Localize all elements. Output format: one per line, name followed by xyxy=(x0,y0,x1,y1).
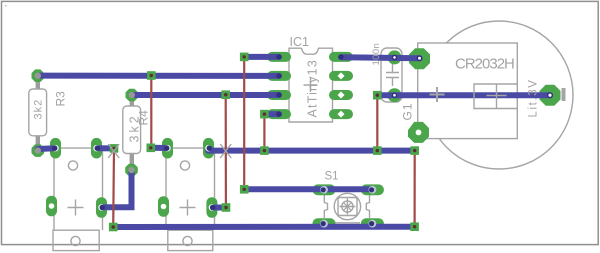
svg-text:3k2: 3k2 xyxy=(128,113,142,142)
J2.ML hole xyxy=(161,204,167,210)
IC1.8 hole xyxy=(338,54,343,59)
IC1.1 hole xyxy=(276,54,281,59)
wire C1.2 to G1 right pad xyxy=(377,92,550,98)
svg-text:AtTiny13: AtTiny13 xyxy=(306,59,320,117)
switch S1 body outline xyxy=(324,189,369,223)
capacitor C1 plates symbol xyxy=(386,64,399,86)
jack J1 outline xyxy=(53,148,103,250)
R3.2 hole xyxy=(35,147,41,153)
J1 pad top-left xyxy=(50,138,61,159)
S1 pad top-left xyxy=(313,184,336,195)
wire top: via at R3 trace down to via at J2.TL stub xyxy=(150,76,152,148)
battery holder plus mark xyxy=(430,87,445,102)
via C bottom hole xyxy=(224,206,227,209)
via F bottom hole xyxy=(376,149,379,152)
svg-text:IC1: IC1 xyxy=(290,35,310,49)
battery holder minus mark xyxy=(562,88,566,101)
svg-text:G1: G1 xyxy=(401,102,415,120)
via G bottom hole xyxy=(413,225,416,228)
IC1.5 hole diamond xyxy=(338,111,345,118)
via A (R3 trace / J2.TL) top xyxy=(147,71,156,80)
wire IC1.8 to C1.1 to G1 plus pad xyxy=(341,57,420,58)
pad G1 bottom-left octagon xyxy=(408,122,429,143)
via E bottom hole xyxy=(263,149,266,152)
via A bottom hole xyxy=(149,146,152,149)
C1.1 hole xyxy=(392,55,398,61)
IC1 pad 2 xyxy=(267,71,291,81)
J1 pad mid-right xyxy=(96,197,107,218)
IC1 pad 8 xyxy=(329,52,353,62)
via D (IC1.1 / S1) top xyxy=(240,53,249,62)
IC1 body outline xyxy=(289,48,333,122)
wire top: via IC1.4 down to via long mid trace xyxy=(263,114,265,151)
wire top: via long mid trace down to via bottom trace xyxy=(414,151,416,227)
svg-text:3k2: 3k2 xyxy=(33,99,45,120)
via A bottom xyxy=(147,144,156,153)
pad C1.1 xyxy=(388,50,402,64)
via B top hole xyxy=(112,147,115,150)
G1 BL hole xyxy=(416,130,422,136)
svg-text:R3: R3 xyxy=(54,91,68,107)
via D top hole xyxy=(243,55,246,58)
S1 pad bottom-right xyxy=(361,218,384,229)
R3.1 hole xyxy=(35,73,41,79)
J1.ML hole xyxy=(49,203,55,209)
J2.MR hole xyxy=(209,204,215,210)
IC1 pad 4 xyxy=(267,109,291,119)
via C bottom xyxy=(222,203,231,212)
svg-text:100n: 100n xyxy=(371,43,382,66)
wire J2 top-right long trace to via xyxy=(208,148,415,154)
via F bottom xyxy=(373,146,382,155)
wire via to IC1.4 xyxy=(264,111,279,117)
wire via to S1 top pads xyxy=(244,186,372,192)
via C (trace B / J2.MR) top xyxy=(221,90,230,99)
wire R4.1 to IC1.3 xyxy=(132,92,279,98)
IC1.7 hole diamond xyxy=(338,72,345,79)
IC1.2 hole xyxy=(276,73,281,78)
IC1 origin cross xyxy=(304,78,318,92)
pad G1 right octagon xyxy=(540,85,561,106)
J1 pad top-right xyxy=(91,138,102,159)
J1 pad mid-left xyxy=(46,196,57,217)
via E bottom xyxy=(260,146,269,155)
R4.2 hole xyxy=(128,167,134,173)
resistor R3 body xyxy=(29,80,47,145)
via G top hole xyxy=(413,149,416,152)
wire top: via J1.TR down to via bottom trace xyxy=(112,148,115,227)
battery holder G1 circle xyxy=(425,21,573,169)
resistor R4 body xyxy=(123,99,141,165)
J1.TR hole xyxy=(93,145,99,151)
S1 button inner square xyxy=(338,198,357,216)
pad R4.1 xyxy=(126,89,139,102)
G1 right hole xyxy=(547,92,553,98)
IC1.3 hole xyxy=(276,92,281,97)
wire R4.2 down then left to J1 mid-right xyxy=(102,170,132,207)
capacitor C1 outline xyxy=(381,48,402,102)
wire J1 top-right to via xyxy=(97,145,115,151)
via A top hole xyxy=(150,74,153,77)
via D bottom xyxy=(240,185,249,194)
wire bottom long trace via to via xyxy=(113,224,415,230)
S1 pad top-right xyxy=(361,184,384,195)
svg-text:S1: S1 xyxy=(325,171,339,183)
via F top hole xyxy=(376,94,379,97)
S1 pad holes xyxy=(320,186,328,194)
via B bottom xyxy=(109,223,118,232)
wire R3.1 to IC1.2 xyxy=(38,73,279,79)
via E (IC1.4 / mid trace) top xyxy=(260,110,269,119)
battery holder G1 rectangle xyxy=(418,43,518,139)
wire top: via on trace B down to via J2.MR xyxy=(225,95,227,208)
battery holder notch xyxy=(474,84,517,109)
J2.TR hole xyxy=(205,145,211,151)
J2 pad mid-right xyxy=(206,197,217,218)
wire top: via IC1.1 down to via S1 trace xyxy=(243,57,245,190)
J2.TL hole xyxy=(164,145,170,151)
J2 pad top-left xyxy=(162,138,173,159)
J2 plus mark xyxy=(180,200,196,216)
S1 pad bottom-left xyxy=(313,218,336,229)
pad C1.2 xyxy=(388,88,402,102)
S1 button circle and crosshair xyxy=(342,201,353,212)
IC1.4 hole xyxy=(276,111,281,116)
svg-text:Lit.3V: Lit.3V xyxy=(528,78,540,117)
J2 pad mid-left xyxy=(158,196,169,217)
C1.2 hole xyxy=(392,92,398,98)
wire top: via C1.2 down to via long mid trace xyxy=(376,95,378,150)
via G bottom xyxy=(410,222,419,231)
IC1 pad 1 xyxy=(267,52,291,62)
via G (mid trace / bottom trace) top xyxy=(410,146,419,155)
IC1 pad 6 xyxy=(329,90,353,100)
battery holder centre contact cross xyxy=(487,84,507,109)
R4.1 hole xyxy=(129,92,135,98)
J1 plus mark xyxy=(68,200,84,216)
IC1 pad 7 xyxy=(329,71,353,81)
J1.TL hole xyxy=(52,145,58,151)
svg-text:CR2032H: CR2032H xyxy=(455,56,514,73)
J2 origin X xyxy=(220,144,231,158)
pad R4.2 xyxy=(125,164,138,177)
wire J2 mid-right to via xyxy=(212,205,226,211)
G1 TL hole xyxy=(417,55,423,61)
pad R3.1 xyxy=(32,69,45,82)
IC1 pad 3 xyxy=(267,90,291,100)
wire R3.2 to J1 top-left xyxy=(38,145,56,152)
via E top hole xyxy=(263,112,266,115)
wire via to IC1.1 xyxy=(244,54,279,60)
via B (J1.TR) top xyxy=(110,144,119,153)
via F (C1.2 / mid trace) top xyxy=(373,91,382,100)
via B bottom hole xyxy=(112,225,115,228)
via C top hole xyxy=(224,93,227,96)
pad G1 top-left octagon xyxy=(409,48,430,69)
J1 origin X xyxy=(108,144,119,158)
jack J2 outline xyxy=(166,148,215,250)
IC1.6 hole diamond xyxy=(338,92,345,99)
origin mark xyxy=(5,5,7,7)
pad R3.2 xyxy=(32,144,45,157)
IC1 pad 5 xyxy=(329,109,353,119)
J2 pad top-right xyxy=(203,138,214,159)
wire via to J2 top-left xyxy=(151,145,168,151)
J1.MR hole xyxy=(98,204,104,210)
via D bottom hole xyxy=(243,188,246,191)
